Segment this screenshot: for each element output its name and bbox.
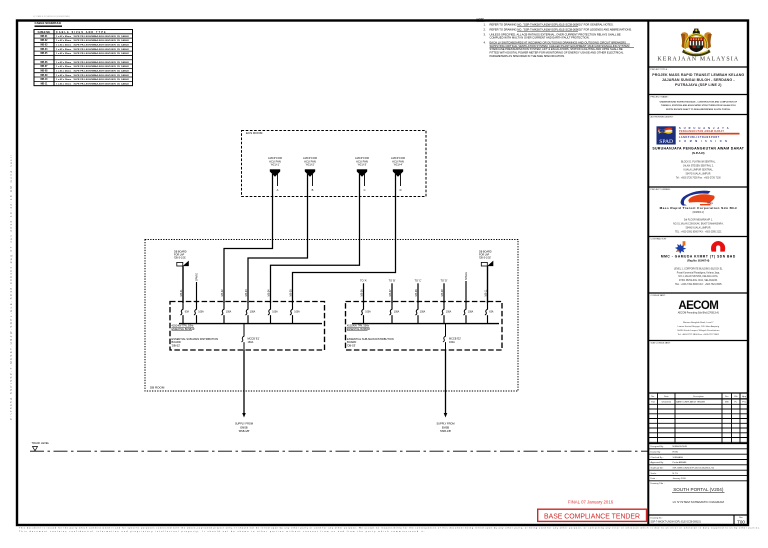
svg-text:Designed By :: Designed By : (651, 446, 665, 448)
svg-text:XLPE FR-LSOH/SWA/LSOH 600/1000: XLPE FR-LSOH/SWA/LSOH 600/1000V CU CABLE (74, 48, 130, 51)
feeder TO D (441, 279, 448, 303)
SPAD name and address (652, 147, 744, 180)
svg-text:100A: 100A (420, 311, 426, 314)
svg-text:1 x 4C x 50mm: 1 x 4C x 50mm (56, 44, 71, 47)
svg-text:LV CABLE SCHEDULE (ESSENTIAL): LV CABLE SCHEDULE (ESSENTIAL) (33, 15, 70, 18)
title block fields (648, 448, 748, 450)
svg-text:BASE COMPLIANCE TENDER: BASE COMPLIANCE TENDER (544, 514, 640, 521)
AECOM name and address (677, 312, 720, 336)
load LMCP D (ECS room AC unit control panel) (391, 156, 405, 192)
incomer MCCB E1 160A of DB-S2 (241, 324, 260, 350)
svg-text:Gad/Cad file :: Gad/Cad file : (651, 467, 665, 469)
breaker CB5 on DB-S2 (100A) (268, 302, 278, 324)
svg-text:50470 KUALA LUMPUR.: 50470 KUALA LUMPUR. (686, 172, 712, 175)
svg-text:PROJECT NAME :: PROJECT NAME : (651, 95, 670, 98)
svg-text:4.: 4. (484, 40, 486, 44)
svg-text:January 2016: January 2016 (673, 477, 687, 480)
svg-text:Mass Rapid Transit Corporation: Mass Rapid Transit Corporation Sdn Bhd (660, 206, 737, 210)
svg-text:'MSB-1/B': 'MSB-1/B' (440, 429, 452, 433)
distribution board DB-S2 enclosure (170, 302, 325, 351)
svg-text:KERAJAAN MALAYSIA: KERAJAAN MALAYSIA (657, 56, 739, 62)
svg-text:KUALA LUMPUR SENTRAL,: KUALA LUMPUR SENTRAL, (683, 168, 713, 171)
svg-text:Tel : +603-2726 7000 Fax : +: Tel : +603-2726 7000 Fax : +603-2726 710… (676, 177, 722, 179)
breaker CB12 on DB-S3 (63A) (485, 302, 494, 324)
svg-text:MB-09: MB-09 (41, 75, 49, 77)
svg-text:47301 PETALING JAYA, SELANGOR.: 47301 PETALING JAYA, SELANGOR. (679, 279, 718, 282)
svg-text:UNDERGROUND WORKS PACKAGE - CO: UNDERGROUND WORKS PACKAGE - CONSTRUCTION… (660, 101, 738, 104)
svg-text:XLPE FR-LSOH/SWA/LSOH 600/1000: XLPE FR-LSOH/SWA/LSOH 600/1000V CU CABLE (74, 61, 130, 64)
svg-text:TEL : +603-7491 8000 FAX : +: TEL : +603-7491 8000 FAX : +603-7621 800… (675, 283, 722, 286)
svg-text:MB-01: MB-01 (180, 289, 183, 297)
breaker CB8 on DB-S3 (100A) (389, 302, 399, 324)
svg-text:L A N D P U B L I C T R A: L A N D P U B L I C T R A N S P O R T (679, 136, 720, 139)
svg-text:C O M M I S S I O N: C O M M I S S I O N (679, 141, 728, 143)
supply source label (right) (436, 422, 454, 434)
DB board for LAP DB-S-1/01 (174, 251, 189, 267)
svg-text:PARAMETERS AS SPECIFIED IN THE: PARAMETERS AS SPECIFIED IN THE M&E SPECI… (490, 54, 566, 58)
svg-text:N.T.S: N.T.S (673, 473, 679, 475)
svg-text:Corp: Corp (708, 203, 714, 205)
svg-text:(902884-V): (902884-V) (693, 212, 705, 214)
svg-text:TEL : +603-2081 8000 FAX : +: TEL : +603-2081 8000 FAX : +603-2095 212… (675, 230, 722, 233)
svg-text:1 x 4C x 16mm: 1 x 4C x 16mm (56, 74, 71, 77)
breaker CB6 on DB-S2 (100A) (290, 302, 300, 324)
svg-text:AUTHORISED AGENT :: AUTHORISED AGENT : (651, 115, 675, 118)
MRT Corp name and address (660, 206, 737, 233)
svg-text:Drawn By :: Drawn By : (651, 450, 662, 453)
svg-text:B: B (312, 188, 314, 192)
track level line (30, 450, 648, 452)
svg-text:'MSB-1/B': 'MSB-1/B' (238, 429, 250, 433)
svg-text:Paulo ARMAS: Paulo ARMAS (673, 461, 687, 464)
svg-text:XLPE FR-LSOH/SWA/LSOH 600/1000: XLPE FR-LSOH/SWA/LSOH 600/1000V CU CABLE (74, 69, 130, 72)
wire from LMCP C to DB-S2 breaker (271, 174, 360, 303)
svg-text:CONSULTANT :: CONSULTANT : (651, 294, 667, 297)
wire from LMCP D to DB-S2 breaker (293, 174, 396, 303)
feeder TO A (360, 279, 367, 303)
svg-text:SUBHASH: SUBHASH (673, 456, 684, 459)
svg-text:JAJARAN SUNGAI BULOH - SERDANG: JAJARAN SUNGAI BULOH - SERDANG - (662, 78, 736, 82)
svg-text:Date :: Date : (651, 477, 657, 480)
svg-text:T00: T00 (737, 520, 745, 525)
svg-text:TO 'C': TO 'C' (415, 279, 422, 282)
svg-text:MMC - GAMUDA KVMRT (T) SDN BHD: MMC - GAMUDA KVMRT (T) SDN BHD (661, 255, 736, 259)
svg-text:MB-01: MB-01 (41, 36, 49, 38)
svg-text:MB-06: MB-06 (360, 289, 363, 297)
svg-text:SPARE: SPARE (196, 273, 199, 281)
svg-text:100A: 100A (226, 311, 232, 314)
svg-text:3.: 3. (484, 32, 486, 36)
breaker CB10 on DB-S3 (100A) (441, 302, 451, 324)
breaker CB2 on DB-S2 (100A) (194, 302, 204, 324)
svg-text:TUNNELS, STATIONS AND ASSOCIAT: TUNNELS, STATIONS AND ASSOCIATED STRUCTU… (661, 104, 736, 107)
svg-text:63A: 63A (185, 311, 190, 314)
wire spare to CB2 (196, 282, 198, 303)
svg-text:XLPE FR-LSOH/SWA/LSOH 600/1000: XLPE FR-LSOH/SWA/LSOH 600/1000V CU CABLE (74, 39, 130, 42)
svg-text:100A: 100A (272, 311, 278, 314)
svg-text:1 x 4C x 35mm: 1 x 4C x 35mm (56, 61, 71, 64)
svg-text:AECOM Perunding Sdn Bhd (27661: AECOM Perunding Sdn Bhd (276613-A) (678, 312, 719, 315)
svg-text:5th FLOOR MENARA MP 1,: 5th FLOOR MENARA MP 1, (684, 218, 713, 221)
svg-text:MB-05: MB-05 (41, 53, 49, 55)
svg-text:EMSB: EMSB (240, 425, 248, 429)
DB board for LAP DB-S-1/02 (479, 251, 493, 267)
MMC logo (675, 241, 686, 254)
svg-text:Drawing No :: Drawing No : (651, 516, 663, 519)
svg-text:XLPE FR-LSOH/SWA/LSOH 600/1000: XLPE FR-LSOH/SWA/LSOH 600/1000V CU CABLE (74, 65, 130, 68)
svg-text:6/01/2016: 6/01/2016 (662, 402, 672, 404)
svg-text:SUPPLY FROM: SUPPLY FROM (235, 422, 253, 426)
busbar DB-S2 (415/240V essential busbar) (179, 323, 322, 325)
svg-text:MB-03: MB-03 (245, 289, 248, 297)
svg-text:MB-02: MB-02 (221, 289, 224, 297)
svg-text:SUPPLY FROM: SUPPLY FROM (436, 422, 454, 426)
svg-text:100A: 100A (250, 311, 256, 314)
svg-text:COMPLIED WITH MULTI IN OVER CU: COMPLIED WITH MULTI IN OVER CURRENT AND … (490, 36, 590, 40)
svg-text:JALAN STESEN SENTRAL 2,: JALAN STESEN SENTRAL 2, (683, 164, 714, 167)
svg-text:MB-07: MB-07 (41, 66, 49, 68)
svg-text:Pusat Komersial Paradigma, Kel: Pusat Komersial Paradigma, Kelana Jaya, (677, 271, 720, 274)
svg-text:'DB-S2': 'DB-S2' (172, 344, 181, 348)
contractor name and address (661, 255, 736, 286)
svg-text:1 x 4C x 95mm: 1 x 4C x 95mm (56, 35, 71, 38)
svg-text:A: A (277, 188, 279, 192)
wire from LMCP A to DB-S2 breaker (224, 174, 273, 303)
svg-text:Scale :: Scale : (651, 473, 658, 475)
breaker CB11 on DB-S3 (100A) (463, 302, 473, 324)
breaker CB4 on DB-S2 (100A) (245, 302, 255, 324)
load LMCP B (ECS room AC unit control panel) (303, 156, 317, 192)
svg-text:NOTE: NOTE (477, 17, 485, 21)
svg-text:MB-11: MB-11 (484, 289, 487, 297)
svg-text:SPAD: SPAD (659, 139, 673, 145)
svg-text:TRACK LEVEL: TRACK LEVEL (32, 441, 50, 445)
svg-text:FINAL 07 January 2016: FINAL 07 January 2016 (568, 500, 614, 505)
svg-text:100A: 100A (198, 311, 204, 314)
svg-text:PROJECT TITLE :: PROJECT TITLE : (651, 69, 669, 71)
svg-text:PROJECT OWNER :: PROJECT OWNER : (651, 189, 672, 191)
svg-text:SSP-T-MMKT-UN2W-SOPL-ELE-SC38-: SSP-T-MMKT-UN2W-SOPL-ELE-SC38-009101-T04 (673, 467, 715, 469)
svg-text:1 x 4C x 16mm: 1 x 4C x 16mm (56, 82, 71, 85)
svg-text:Approved By :: Approved By : (651, 461, 665, 464)
svg-text:1.: 1. (484, 23, 486, 27)
svg-text:2.: 2. (484, 28, 486, 32)
wire LAP DB-S-1/01 to CB1 (182, 266, 184, 303)
svg-text:Tel: +603-2727 3800 Fax: +603: Tel: +603-2727 3800 Fax: +603-2727 3801 (678, 334, 720, 336)
breaker CB7 on DB-S3 (100A) (361, 302, 371, 324)
svg-text:XLPE FR-LSOH/SWA/LSOH 600/1000: XLPE FR-LSOH/SWA/LSOH 600/1000V CU CABLE (74, 78, 130, 81)
svg-text:1 x 4C x 50mm: 1 x 4C x 50mm (56, 48, 71, 51)
svg-text:1 x 4C x 16mm: 1 x 4C x 16mm (56, 78, 71, 81)
svg-text:TO 'D': TO 'D' (441, 279, 448, 282)
svg-text:ESSENTIAL SUB-MAIN DISTRIBUTIO: ESSENTIAL SUB-MAIN DISTRIBUTION (347, 337, 394, 341)
svg-text:100A: 100A (468, 311, 474, 314)
svg-text:160A: 160A (248, 341, 254, 344)
supply source label (left) (235, 422, 253, 434)
arrowhead supply (left) (242, 413, 246, 418)
svg-text:(Reg No: 915467-H): (Reg No: 915467-H) (687, 259, 709, 262)
svg-text:SUB CONSULTANT :: SUB CONSULTANT : (651, 342, 672, 345)
svg-text:MB-09: MB-09 (441, 289, 444, 297)
ECS ROOM enclosure (242, 131, 427, 197)
svg-text:DB ROOM: DB ROOM (150, 385, 165, 389)
svg-text:Laman Sentral Berjaya, 105 Jal: Laman Sentral Berjaya, 105 Jalan Ampang (678, 325, 720, 328)
svg-text:Drawing Title :: Drawing Title : (651, 482, 665, 485)
MRT Corp logo (681, 191, 715, 206)
svg-text:AECOM: AECOM (678, 300, 718, 312)
drawing number bar (648, 514, 748, 516)
svg-text:100A: 100A (294, 311, 300, 314)
svg-text:TO 'A': TO 'A' (360, 279, 367, 282)
wire spare to CB11 (465, 281, 467, 303)
breaker CB3 on DB-S2 (100A) (221, 302, 231, 324)
svg-text:'DB-S-1/01': 'DB-S-1/01' (174, 257, 187, 260)
svg-text:MB-02: MB-02 (41, 40, 49, 42)
svg-text:XLPE FR-LSOH/SWA/LSOH 600/1000: XLPE FR-LSOH/SWA/LSOH 600/1000V CU CABLE (74, 35, 130, 38)
svg-text:(S.P.A.D): (S.P.A.D) (692, 151, 704, 155)
Gamuda logo (711, 241, 725, 252)
svg-text:MB-03: MB-03 (41, 45, 49, 47)
svg-text:50490 KUALA LUMPUR.: 50490 KUALA LUMPUR. (686, 226, 712, 229)
svg-text:MB-07: MB-07 (389, 289, 392, 297)
svg-text:1 x 4C x 25mm: 1 x 4C x 25mm (56, 69, 71, 72)
Malaysia coat of arms (681, 29, 712, 57)
wire from LMCP B to DB-S2 breaker (248, 174, 308, 303)
svg-text:CABLE SCHEDULE: CABLE SCHEDULE (35, 21, 62, 25)
svg-text:MN: MN (725, 402, 729, 404)
incomer MCCB E2 160A of DB-S3 (443, 324, 462, 350)
svg-text:PENGANGKUTAN AWAM DARAT: PENGANGKUTAN AWAM DARAT (679, 130, 724, 133)
feeder TO B (389, 279, 396, 303)
svg-text:MB-11: MB-11 (41, 83, 48, 85)
svg-text:63A: 63A (489, 311, 494, 314)
track level datum symbol (33, 447, 38, 451)
svg-text:HOW: HOW (673, 451, 679, 453)
svg-text:1 x 4C x 35mm: 1 x 4C x 35mm (56, 52, 71, 55)
svg-text:BLOCK D, PLATINUM SENTRAL,: BLOCK D, PLATINUM SENTRAL, (681, 160, 716, 163)
svg-text:'DB-S-1/02': 'DB-S-1/02' (479, 257, 492, 260)
svg-text:'ACU-1': 'ACU-1' (270, 163, 280, 167)
svg-text:XLPE FR-LSOH/SWA/LSOH 600/1000: XLPE FR-LSOH/SWA/LSOH 600/1000V CU CABLE (74, 52, 130, 55)
svg-text:LEVEL 1, CORPORATE BUILDING (B: LEVEL 1, CORPORATE BUILDING (BLOCK E), (674, 267, 723, 270)
svg-text:100A: 100A (394, 311, 400, 314)
svg-text:XLPE FR-LSOH/SWA/LSOH 600/1000: XLPE FR-LSOH/SWA/LSOH 600/1000V CU CABLE (74, 82, 130, 85)
svg-text:NORTH ESCAPE SHAFT TO DESA WAT: NORTH ESCAPE SHAFT TO DESA WATERPARK SOU… (666, 108, 731, 111)
svg-text:Menara Bangkok Bank, Level 7: Menara Bangkok Bank, Level 7 (683, 321, 714, 324)
svg-text:100A: 100A (365, 311, 371, 314)
distribution board DB-S3 enclosure (346, 302, 503, 351)
incoming supply wire (right board) (445, 350, 447, 413)
svg-text:MB-10: MB-10 (41, 79, 49, 81)
cable schedule table (34, 30, 133, 86)
svg-text:Checked By :: Checked By : (651, 457, 664, 459)
title block left border (647, 21, 649, 526)
svg-text:MB-06: MB-06 (41, 62, 49, 64)
svg-text:BOARD: BOARD (347, 340, 356, 344)
svg-text:'ACU-4': 'ACU-4' (393, 163, 403, 167)
svg-text:MB-08: MB-08 (41, 70, 49, 72)
SPAD logo wordmark (679, 127, 740, 143)
svg-text:'ACU-2': 'ACU-2' (305, 163, 315, 167)
svg-text:C: C (364, 188, 366, 192)
feeder TO C (415, 279, 422, 303)
svg-text:BOARD: BOARD (172, 340, 181, 344)
svg-text:CABLE SIZES AND TYPE: CABLE SIZES AND TYPE (56, 31, 107, 34)
revision table (648, 398, 748, 400)
svg-text:CONTRACTOR :: CONTRACTOR : (651, 238, 668, 241)
svg-text:LV SYSTEM SCHEMATIC DIAGRAM: LV SYSTEM SCHEMATIC DIAGRAM (673, 500, 725, 504)
svg-text:1 x 4C x 25mm: 1 x 4C x 25mm (56, 65, 71, 68)
svg-text:NURA SUNUR: NURA SUNUR (673, 445, 688, 448)
load LMCP A (ECS room AC unit control panel) (268, 156, 282, 192)
wire LAP DB-S-1/02 to CB12 (487, 266, 489, 303)
incoming supply wire (left board) (243, 350, 245, 413)
svg-text:100A: 100A (446, 311, 452, 314)
svg-text:MB-04: MB-04 (41, 48, 49, 51)
svg-text:XLPE FR-LSOH/SWA/LSOH 600/1000: XLPE FR-LSOH/SWA/LSOH 600/1000V CU CABLE (74, 74, 130, 77)
svg-text:CABLE NO.: CABLE NO. (38, 31, 51, 34)
svg-text:TO 'B': TO 'B' (389, 279, 396, 282)
svg-text:D: D (400, 188, 402, 192)
svg-text:BASE COMPLIANCE TENDER: BASE COMPLIANCE TENDER (676, 401, 705, 404)
svg-text:This document is issued for th: This document is issued for the party wh… (19, 527, 760, 530)
breaker CB1 on DB-S2 (63A) (180, 302, 189, 324)
SPAD logo (657, 126, 676, 145)
svg-text:PUTRAJAYA (SSP LINE 2): PUTRAJAYA (SSP LINE 2) (675, 83, 722, 87)
svg-text:XLPE FR-LSOH/SWA/LSOH 600/1000: XLPE FR-LSOH/SWA/LSOH 600/1000V CU CABLE (74, 44, 130, 47)
svg-text:EMSB: EMSB (442, 425, 450, 429)
svg-text:SPARE: SPARE (465, 272, 468, 280)
svg-text:SOUTH PORTAL (V204): SOUTH PORTAL (V204) (673, 487, 724, 492)
svg-text:ESSENTIAL SUB-MAIN DISTRIBUTIO: ESSENTIAL SUB-MAIN DISTRIBUTION (172, 337, 219, 341)
svg-text:No.: No. (651, 396, 655, 398)
breaker CB9 on DB-S3 (100A) (415, 302, 425, 324)
svg-text:SSP-T-MKSKT-UN2W-SOPL-ELE-SC38: SSP-T-MKSKT-UN2W-SOPL-ELE-SC38-009101 (651, 522, 702, 524)
load LMCP C (ECS room AC unit control panel) (355, 156, 369, 192)
svg-text:MB-08: MB-08 (415, 289, 418, 297)
svg-text:MB-05: MB-05 (289, 289, 292, 297)
svg-text:160A: 160A (449, 341, 455, 344)
svg-text:'ACU-3': 'ACU-3' (357, 163, 367, 167)
svg-text:1 x 4C x 95mm: 1 x 4C x 95mm (56, 39, 71, 42)
svg-text:NO.01 JALAN CONGKAK, BUKIT DAM: NO.01 JALAN CONGKAK, BUKIT DAMANSARA, (673, 222, 724, 225)
svg-text:'DB-S3': 'DB-S3' (347, 344, 356, 348)
svg-text:PROJEK MASS RAPID TRANSIT LEMB: PROJEK MASS RAPID TRANSIT LEMBAH KELANG (652, 73, 744, 77)
svg-text:50450 Kuala Lumpur, Wilayah Pe: 50450 Kuala Lumpur, Wilayah Persekutuan (677, 329, 720, 332)
svg-text:Description: Description (693, 395, 705, 398)
svg-text:NO.1 JALAN SS7/26A, KELANA JAY: NO.1 JALAN SS7/26A, KELANA JAYA, (678, 275, 718, 278)
DB ROOM enclosure (145, 240, 518, 392)
stamp: BASE COMPLIANCE TENDER (red box) (538, 509, 647, 521)
svg-text:ECS ROOM: ECS ROOM (246, 131, 263, 135)
arrowhead supply (right) (444, 413, 448, 418)
svg-text:MB-04: MB-04 (267, 289, 270, 297)
busbar DB-S3 (415/240V essential busbar) (352, 323, 499, 325)
svg-text:This document contains confide: This document contains confidential info… (19, 530, 425, 533)
